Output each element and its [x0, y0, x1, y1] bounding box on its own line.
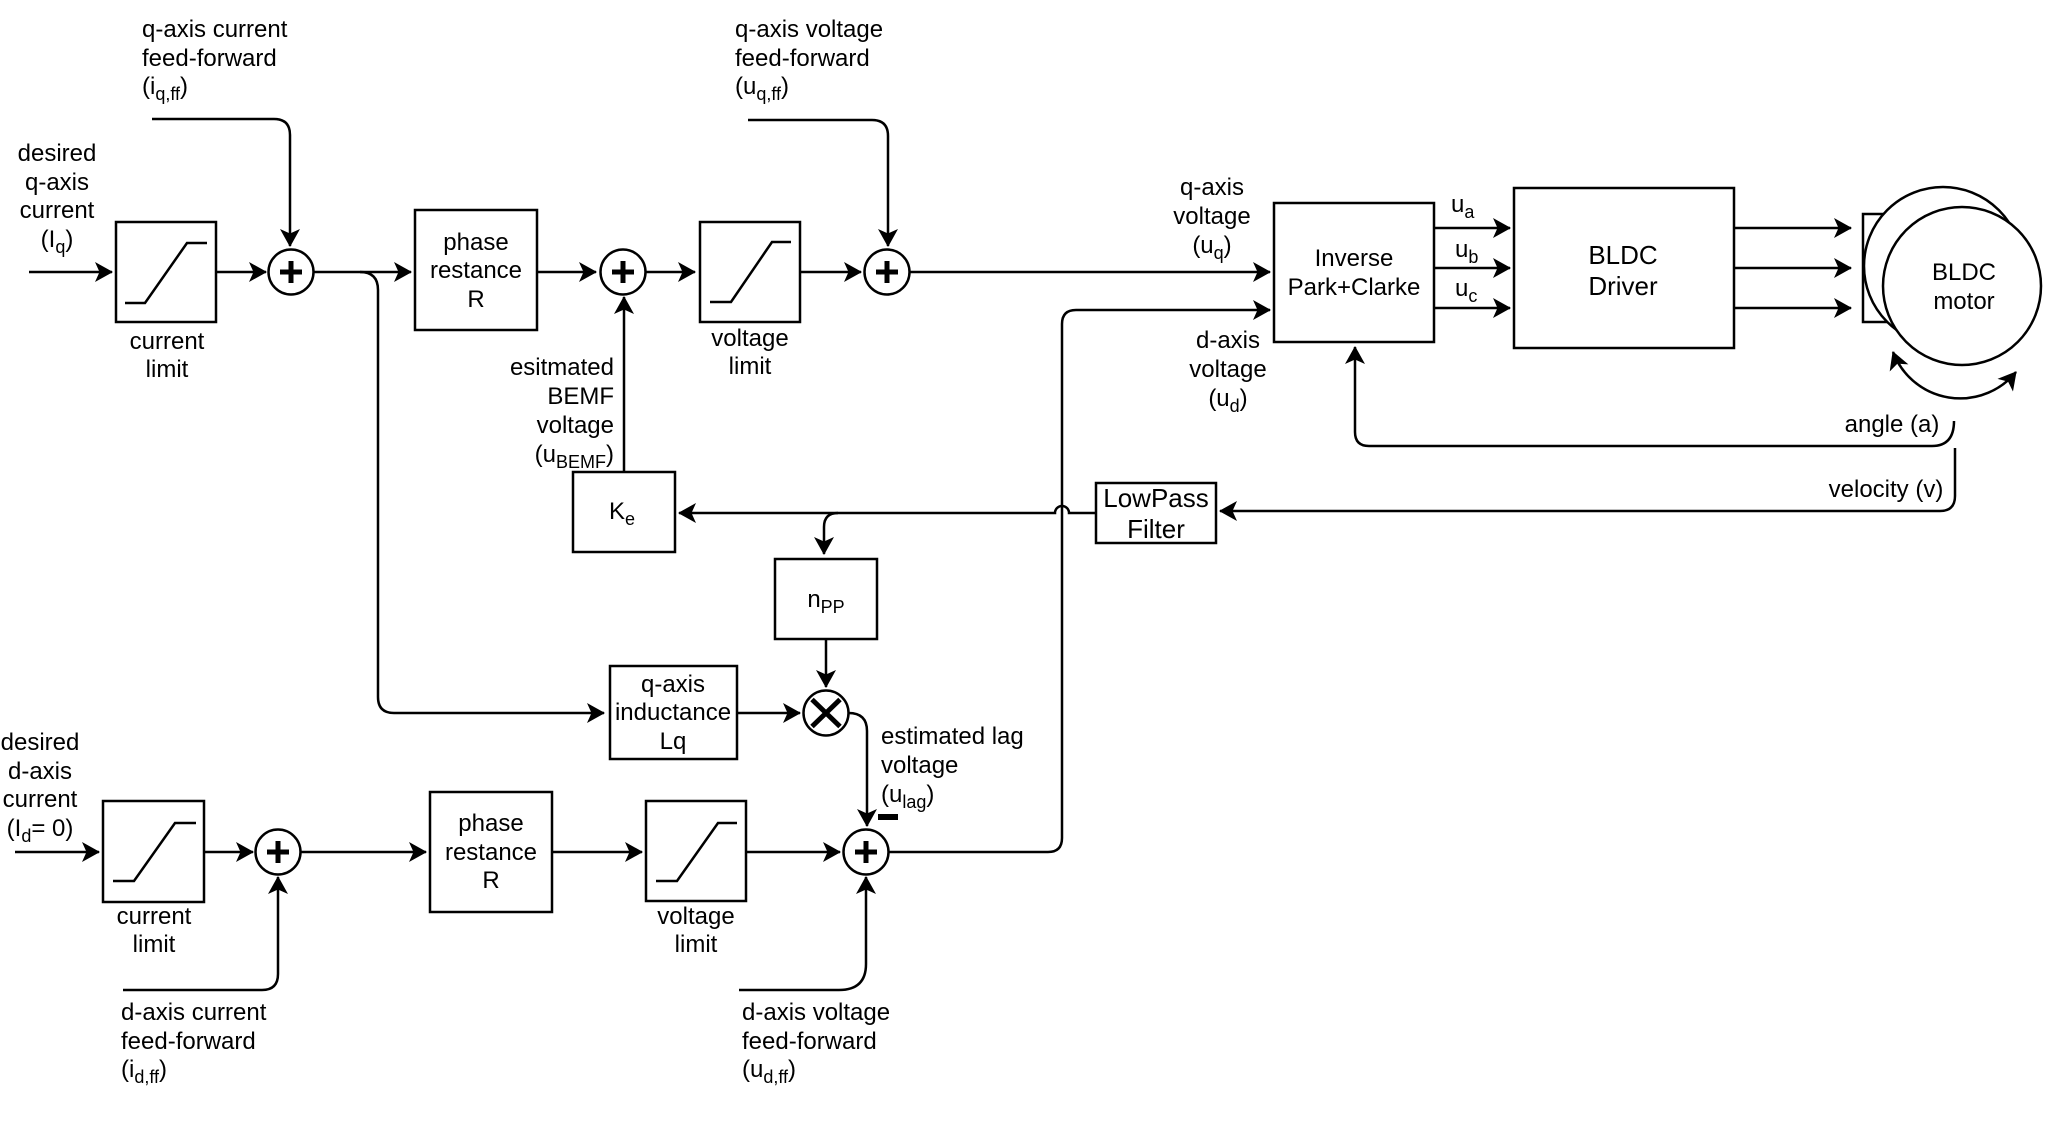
label desired d-axis current	[1, 729, 80, 846]
svg-text:phase: phase	[443, 229, 508, 256]
svg-text:(uq): (uq)	[1192, 232, 1231, 263]
svg-text:LowPass: LowPass	[1103, 483, 1209, 513]
label voltage limit (q-axis)	[711, 325, 788, 380]
svg-text:Driver: Driver	[1588, 271, 1658, 301]
svg-text:feed-forward: feed-forward	[142, 45, 277, 72]
wire angle feedback	[1355, 347, 1954, 446]
multiply junction X	[804, 691, 849, 736]
wire input Iq	[29, 271, 112, 274]
svg-text:esitmated: esitmated	[510, 354, 614, 381]
svg-text:voltage: voltage	[657, 903, 734, 930]
label q-axis voltage uq	[1173, 174, 1250, 263]
wire nPP to X junction	[825, 639, 828, 687]
block phase restance R (q-axis)	[415, 210, 537, 330]
svg-text:(ud): (ud)	[1208, 385, 1247, 416]
svg-text:estimated lag: estimated lag	[881, 723, 1024, 750]
wire voltage limit to sum3	[800, 271, 861, 274]
wire input Id	[15, 851, 99, 854]
svg-text:voltage: voltage	[1173, 203, 1250, 230]
label LowPass Filter	[1103, 483, 1209, 544]
svg-text:ub: ub	[1455, 236, 1478, 267]
block voltage limit (q-axis)	[700, 222, 800, 322]
wire udff feed-forward into S6	[739, 877, 866, 990]
wire uqff feed-forward into S3	[748, 120, 888, 246]
label BLDC motor	[1932, 259, 1996, 315]
block Ke	[573, 472, 675, 552]
block current limit (d-axis)	[103, 801, 204, 902]
block current limit (q-axis)	[116, 222, 216, 322]
wire driver to motor c	[1734, 307, 1851, 310]
summing junction S6	[844, 830, 889, 875]
svg-text:current: current	[3, 786, 78, 813]
wire sum2 to voltage limit	[646, 271, 696, 274]
svg-text:Filter: Filter	[1127, 514, 1185, 544]
svg-text:q-axis voltage: q-axis voltage	[735, 16, 883, 43]
svg-text:Lq: Lq	[660, 728, 687, 755]
label voltage limit (d-axis)	[657, 903, 734, 958]
svg-text:BLDC: BLDC	[1588, 240, 1657, 270]
summing junction S2	[601, 250, 646, 295]
wire Lq to X junction	[737, 712, 800, 715]
label phase restance R (d-axis)	[445, 810, 537, 894]
motor circle back	[1864, 187, 2022, 345]
svg-text:velocity (v): velocity (v)	[1829, 476, 1944, 503]
block phase restance R (d-axis)	[430, 792, 552, 912]
svg-text:restance: restance	[445, 839, 537, 866]
minus sign at sum6	[878, 814, 898, 820]
block BLDC Driver	[1514, 188, 1734, 348]
svg-text:ua: ua	[1451, 191, 1475, 222]
summing junction S1	[269, 250, 314, 295]
svg-text:current: current	[20, 197, 95, 224]
svg-text:current: current	[130, 328, 205, 355]
svg-text:d-axis voltage: d-axis voltage	[742, 999, 890, 1026]
motor rotation arc	[1893, 352, 2016, 398]
label q-axis inductance Lq	[615, 671, 731, 755]
wire X to sum6 (u_lag)	[849, 713, 868, 826]
wire current limit to sum5	[204, 851, 253, 854]
label d-axis voltage ud	[1189, 327, 1266, 416]
wire lowpass to Ke with hop	[679, 506, 1096, 513]
wire uq to Inverse Park+Clarke	[910, 271, 1271, 274]
svg-text:(ud,ff): (ud,ff)	[742, 1056, 796, 1087]
svg-text:voltage: voltage	[711, 325, 788, 352]
wire Ke up into S2	[623, 297, 626, 472]
svg-text:feed-forward: feed-forward	[121, 1028, 256, 1055]
motor circle front	[1883, 207, 2041, 365]
svg-text:restance: restance	[430, 257, 522, 284]
svg-text:feed-forward: feed-forward	[735, 45, 870, 72]
svg-text:d-axis: d-axis	[8, 758, 72, 785]
label desired q-axis current	[18, 140, 97, 257]
svg-text:phase: phase	[458, 810, 523, 837]
wire current limit to sum1	[216, 271, 266, 274]
svg-text:(Id= 0): (Id= 0)	[7, 815, 74, 846]
svg-text:d-axis: d-axis	[1196, 327, 1260, 354]
label BLDC Driver	[1588, 240, 1658, 301]
label current limit (d-axis)	[117, 903, 192, 958]
svg-text:current: current	[117, 903, 192, 930]
label Inverse Park+Clarke	[1288, 245, 1421, 301]
motor stator rect	[1863, 214, 1886, 322]
wire voltage limit to sum6	[746, 851, 840, 854]
wire S1 to phase resistance R	[314, 271, 412, 274]
wire phase R to voltage limit (d-axis)	[552, 851, 642, 854]
svg-text:limit: limit	[729, 353, 772, 380]
svg-text:inductance: inductance	[615, 699, 731, 726]
svg-text:uc: uc	[1455, 275, 1477, 306]
wire branch down to Lq	[360, 272, 604, 713]
block voltage limit (d-axis)	[646, 801, 746, 901]
svg-text:nPP: nPP	[807, 586, 844, 617]
svg-text:(uq,ff): (uq,ff)	[735, 73, 789, 104]
svg-text:BEMF: BEMF	[547, 383, 614, 410]
wire ua	[1434, 227, 1510, 230]
summing junction S3	[865, 250, 910, 295]
svg-text:q-axis: q-axis	[25, 169, 89, 196]
summing junction S5	[256, 830, 301, 875]
wire driver to motor a	[1734, 227, 1851, 230]
wire branch down to nPP	[824, 513, 838, 554]
wire uc	[1434, 307, 1510, 310]
svg-text:(uBEMF): (uBEMF)	[535, 441, 614, 472]
svg-text:limit: limit	[133, 931, 176, 958]
svg-text:limit: limit	[146, 356, 189, 383]
wire velocity feedback	[1220, 448, 1955, 511]
wire driver to motor b	[1734, 267, 1851, 270]
svg-text:d-axis current: d-axis current	[121, 999, 267, 1026]
wire ub	[1434, 267, 1510, 270]
svg-text:limit: limit	[675, 931, 718, 958]
block q-axis inductance Lq	[610, 666, 737, 759]
svg-text:(Iq): (Iq)	[41, 226, 74, 257]
block LowPass Filter	[1096, 483, 1216, 543]
label esitmated BEMF voltage	[510, 354, 614, 472]
wire idff feed-forward into S5	[123, 877, 278, 990]
block nPP	[775, 559, 877, 639]
svg-text:voltage: voltage	[537, 412, 614, 439]
svg-text:angle (a): angle (a)	[1845, 411, 1940, 438]
svg-text:q-axis current: q-axis current	[142, 16, 288, 43]
svg-text:(ulag): (ulag)	[881, 781, 934, 812]
svg-text:Park+Clarke: Park+Clarke	[1288, 274, 1421, 301]
svg-text:(iq,ff): (iq,ff)	[142, 73, 188, 104]
block Inverse Park+Clarke	[1274, 203, 1434, 342]
wire phase R to sum2	[537, 271, 596, 274]
svg-text:Inverse: Inverse	[1315, 245, 1394, 272]
label current limit (q-axis)	[130, 328, 205, 383]
svg-text:motor: motor	[1933, 288, 1994, 315]
svg-text:voltage: voltage	[1189, 356, 1266, 383]
svg-text:desired: desired	[1, 729, 80, 756]
wire iqff feed-forward into S1	[152, 119, 290, 246]
svg-text:Ke: Ke	[609, 498, 635, 529]
svg-text:q-axis: q-axis	[1180, 174, 1244, 201]
svg-text:R: R	[467, 286, 484, 313]
wire sum5 to phase R (d-axis)	[301, 851, 427, 854]
svg-text:(id,ff): (id,ff)	[121, 1056, 167, 1087]
wire sum6 up to d-axis voltage input	[889, 310, 1271, 852]
svg-text:desired: desired	[18, 140, 97, 167]
svg-text:R: R	[482, 867, 499, 894]
svg-text:q-axis: q-axis	[641, 671, 705, 698]
svg-text:voltage: voltage	[881, 752, 958, 779]
svg-text:feed-forward: feed-forward	[742, 1028, 877, 1055]
label phase restance R (q-axis)	[430, 229, 522, 313]
svg-text:BLDC: BLDC	[1932, 259, 1996, 286]
